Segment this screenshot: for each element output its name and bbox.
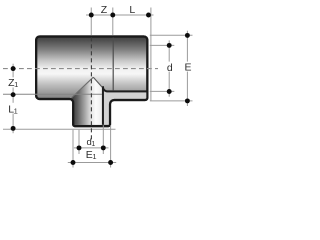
extension line: barrel bottom to E	[150, 100, 193, 102]
dot: Z dimension at centerline	[89, 13, 94, 18]
E dimension line lower half	[186, 72, 188, 106]
svg-text:E: E	[185, 62, 192, 74]
cone transition right edge	[93, 77, 102, 87]
d dimension line lower half	[168, 72, 170, 97]
dot: E dimension bottom	[185, 98, 190, 103]
extension line: bore bottom to d	[150, 90, 175, 92]
branch leg shading overlay (tent + leg)	[71, 77, 103, 125]
dot: Z/L boundary (socket start)	[110, 13, 115, 18]
inner bore line of barrel + fillet (section inner wall)	[103, 87, 147, 92]
E1 dimension line	[68, 162, 116, 164]
extension line: leg right to E1	[110, 125, 112, 167]
dot: L1 dimension at branch end	[11, 126, 16, 131]
socket depth line inside barrel	[112, 38, 114, 91]
dot: Z1/L1 boundary (branch socket start)	[11, 92, 16, 97]
extension: center top	[90, 8, 92, 36]
d1 dimension line	[74, 147, 109, 149]
cone transition left edge	[71, 77, 93, 98]
re-stroke silhouette outline over overlays	[36, 37, 147, 127]
dot: E1 dimension left	[71, 160, 76, 165]
extension line: barrel top to E	[150, 34, 193, 36]
svg-text:Z: Z	[101, 4, 108, 16]
inner bore line of leg (section inner wall)	[102, 86, 104, 125]
d dimension line	[168, 40, 170, 61]
tee body (shaded silhouette)	[36, 37, 147, 127]
horizontal centerline (dash)	[3, 68, 158, 70]
dot: L dimension at fitting end	[146, 13, 151, 18]
extension: socket start top	[112, 8, 114, 36]
extension line below leg	[3, 128, 116, 130]
dot: E dimension top	[185, 33, 190, 38]
top dimension line	[86, 14, 154, 16]
svg-text:L: L	[129, 4, 135, 16]
extension line: leg left to E1	[72, 130, 74, 168]
branch socket depth line across body	[3, 93, 102, 95]
vertical centerline (dash)	[90, 37, 92, 139]
dot: d dimension top	[167, 43, 172, 48]
svg-text:d: d	[167, 62, 173, 74]
left dimension line Z1/L1	[12, 64, 14, 78]
extension line: bore top to d	[150, 44, 175, 46]
dot: d dimension bottom	[167, 89, 172, 94]
dot: d1 dimension right	[101, 145, 106, 150]
extension line: branch bore right to d1	[102, 125, 104, 154]
left dimension line lower segment	[12, 114, 14, 134]
dot: E1 dimension right	[108, 160, 113, 165]
dot: d1 dimension left	[77, 145, 82, 150]
left dimension line middle segment	[12, 88, 14, 103]
extension line: branch bore left to d1	[78, 130, 80, 154]
extension: right end	[150, 8, 152, 101]
E dimension line	[186, 31, 188, 62]
dot: Z1 dimension at centerline	[11, 66, 16, 71]
section wall band (light gray cut material)	[102, 86, 149, 125]
